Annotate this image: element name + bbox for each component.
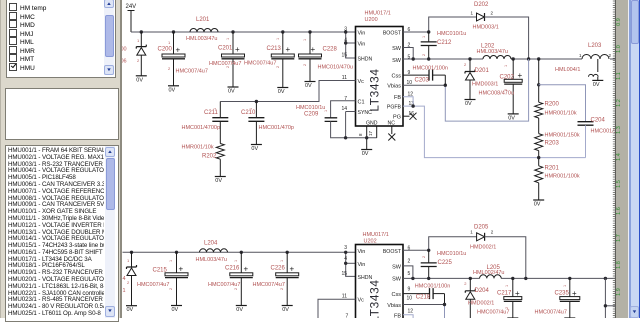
capacitor C203 xyxy=(403,66,448,86)
wire BOOST net lower xyxy=(403,237,477,251)
wire GND pins of U200 xyxy=(367,127,377,150)
capacitor C202 xyxy=(479,59,523,121)
checkbox list box xyxy=(6,0,116,78)
wire FB net lower xyxy=(403,315,413,318)
op-amp U202 LT3434 body xyxy=(356,232,404,322)
wire C1 timing net xyxy=(331,101,356,118)
resistor R201 xyxy=(533,166,580,208)
svg-text:1.9: 1.9 xyxy=(616,288,622,296)
resistor R200 xyxy=(535,59,577,118)
wire 24V input rail xyxy=(131,31,356,33)
capacitor C216 xyxy=(208,252,253,313)
no-connect NC pin xyxy=(388,127,395,141)
checkbox list scrollbar xyxy=(104,0,114,75)
inductor L204 xyxy=(196,241,228,264)
svg-text:1.5: 1.5 xyxy=(616,180,622,188)
capacitor C201 xyxy=(209,32,245,95)
right vertical scrollbar xyxy=(628,0,629,318)
wire Vc compensation net xyxy=(220,81,355,102)
capacitor C235 xyxy=(535,278,580,318)
node junctions lower rail xyxy=(130,251,289,254)
U202 left pin names xyxy=(358,249,373,304)
red pin number marks xyxy=(169,36,567,309)
op-amp U200 LT3434 body xyxy=(356,11,404,127)
U200 left pin names xyxy=(358,31,396,127)
parts list scrollbar xyxy=(105,146,115,318)
svg-text:1.6: 1.6 xyxy=(616,207,622,215)
wire SYNC and C209 ground net xyxy=(331,112,377,138)
resistor R202 xyxy=(182,125,226,184)
node SYNC junction xyxy=(344,136,347,139)
capacitor C204 xyxy=(539,85,617,158)
svg-text:1.0: 1.0 xyxy=(616,45,622,53)
empty white box xyxy=(5,88,119,140)
wire SW output node lower xyxy=(403,266,615,279)
inductor L205 xyxy=(473,265,505,278)
wire FB PGFB net xyxy=(403,97,586,158)
node junctions on input rail xyxy=(140,30,312,33)
capacitor C211 xyxy=(182,102,229,132)
power symbol 24V xyxy=(126,4,137,32)
node Vbias junction xyxy=(444,84,447,87)
svg-text:1.7: 1.7 xyxy=(616,234,622,242)
node Vc net junction xyxy=(255,100,258,103)
capacitor C212 xyxy=(421,31,467,59)
node FB junction xyxy=(411,104,414,107)
wire output to sheet edge lower xyxy=(605,278,615,318)
wire SW output node xyxy=(403,48,615,60)
parts list box xyxy=(5,145,119,322)
panel/canvas divider line xyxy=(120,0,122,318)
node pin4 junction lower xyxy=(344,251,347,265)
wire SHDN stub xyxy=(345,52,347,58)
inductor L203 xyxy=(555,43,612,73)
diode D204 xyxy=(464,278,494,318)
sheet border ruler column xyxy=(616,0,628,318)
capacitor C200 xyxy=(158,32,208,93)
svg-text:1.4: 1.4 xyxy=(616,153,622,161)
wire Vbias net xyxy=(403,59,529,121)
zener diode D203 (labels cut) xyxy=(123,252,138,313)
diode D202 xyxy=(471,2,529,59)
capacitor C228 xyxy=(299,32,353,89)
capacitor C213 xyxy=(244,32,294,95)
capacitor C210 xyxy=(241,102,294,153)
capacitor C217 xyxy=(477,278,522,318)
wire 24V input rail lower xyxy=(123,251,356,253)
resistor R203 xyxy=(535,118,580,166)
capacitor C209 xyxy=(296,105,337,121)
wire Vin pins feed xyxy=(346,32,356,58)
node edge junction xyxy=(604,304,607,307)
no-connect PG pin xyxy=(403,113,417,120)
checkbox rows xyxy=(9,3,46,11)
node SW rail junctions lower xyxy=(411,277,607,280)
U200 right pin names xyxy=(383,31,402,121)
capacitor C215 xyxy=(137,252,188,313)
capacitor C225 xyxy=(421,250,467,278)
node BOOST junction xyxy=(427,30,430,33)
wire BOOST net xyxy=(403,17,477,32)
wire Vbias net lower xyxy=(403,305,445,319)
left docking panel xyxy=(0,0,122,318)
node pin4 junction xyxy=(344,30,347,44)
inductor L202 xyxy=(477,44,512,60)
wire Vin pins feed lower xyxy=(346,252,356,276)
L203 ground tap xyxy=(589,59,604,88)
ground U200 0V xyxy=(361,150,372,158)
diode D205 xyxy=(470,225,526,279)
U202 pin numbers xyxy=(341,245,413,320)
svg-text:1.3: 1.3 xyxy=(616,126,622,134)
node Vbias junction lower xyxy=(443,303,446,306)
node GND junction xyxy=(365,136,368,139)
svg-text:1.1: 1.1 xyxy=(616,72,622,80)
zener diode D200 (labels cut) xyxy=(121,32,147,83)
node R200 C204 tap xyxy=(537,83,540,86)
wire SHDN stub lower xyxy=(345,272,347,276)
node BOOST junction lower xyxy=(427,249,430,252)
diode D201 xyxy=(464,59,498,107)
capacitor C218 xyxy=(403,284,450,305)
node SW rail junctions xyxy=(412,57,541,60)
svg-text:0.9: 0.9 xyxy=(616,18,622,26)
capacitor C226 xyxy=(253,252,299,313)
U200 pin numbers xyxy=(341,27,414,137)
U202 right pin names xyxy=(383,249,402,320)
node FB divider junction xyxy=(537,156,540,159)
inductor L201 xyxy=(186,17,218,42)
svg-text:1.2: 1.2 xyxy=(616,99,622,107)
svg-text:1.8: 1.8 xyxy=(616,261,622,269)
wire Vc net lower xyxy=(318,299,356,318)
